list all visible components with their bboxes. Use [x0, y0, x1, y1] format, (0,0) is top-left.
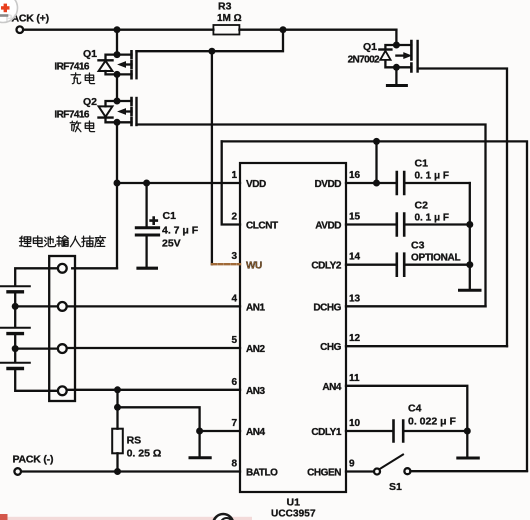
node: junction battery tap 2: [12, 345, 19, 352]
svg-text:AN2: AN2: [246, 344, 266, 355]
wire connector row1 to Q2 column: [72, 267, 117, 269]
watermark bottom-left red mark: [0, 514, 8, 520]
wire net VDD/CHGEN top line: [222, 141, 527, 470]
svg-text:AVDD: AVDD: [315, 221, 341, 232]
wire Q1 drain riser: [116, 30, 118, 55]
svg-text:C1: C1: [415, 158, 429, 170]
capacitor C2 0.1uF: [397, 214, 404, 236]
svg-text:14: 14: [349, 252, 361, 263]
capacitor C3 OPTIONAL: [397, 254, 404, 276]
wire AN2 pin5: [67, 347, 240, 349]
wire DVDD riser: [375, 141, 377, 183]
node: junction 2N7002 drain: [393, 42, 400, 49]
node: junction C4 / AN4-gnd bus: [464, 428, 471, 435]
wire AN4 pin11: [346, 386, 467, 431]
transistor Q1 2N7002: [379, 30, 417, 86]
terminal PACK(-): [14, 468, 21, 475]
wire Q2 source down to VDD node and connector: [116, 122, 118, 268]
node: junction VDD line / C1 4.7uF: [143, 180, 150, 187]
transistor Q1 IRF7416: [99, 51, 137, 78]
svg-text:10: 10: [349, 418, 361, 429]
resistor R3: [213, 25, 239, 35]
label C1 electrolytic plus: [149, 216, 158, 225]
label Q1 chinese: [71, 73, 81, 84]
wire CHG pin12: [346, 345, 507, 347]
svg-text:0. 25 Ω: 0. 25 Ω: [127, 448, 162, 460]
node: junction RS top / AN4 branch: [114, 404, 121, 411]
svg-text:VDD: VDD: [246, 179, 266, 190]
svg-text:AN3: AN3: [246, 386, 266, 397]
svg-text:OPTIONAL: OPTIONAL: [411, 253, 460, 264]
svg-text:0. 1 μ F: 0. 1 μ F: [415, 213, 449, 224]
wire Q1-Q2 link: [116, 74, 118, 101]
wire CHG riser to Q1 2N7002 gate: [418, 69, 507, 347]
svg-text:CHG: CHG: [320, 342, 342, 353]
wire PACK(+) top rail: [23, 29, 396, 31]
capacitor C4 0.022uF: [394, 421, 404, 442]
battery stack wires: [15, 268, 57, 391]
svg-text:UCC3957: UCC3957: [271, 509, 316, 520]
svg-text:4. 7 μ F: 4. 7 μ F: [162, 225, 199, 237]
wire DVDD pin16: [346, 182, 470, 184]
svg-text:CHGEN: CHGEN: [307, 468, 341, 479]
svg-text:PACK (-): PACK (-): [13, 454, 54, 466]
node: junction C2 / ground bus: [466, 221, 473, 228]
svg-text:0. 022 μ F: 0. 022 μ F: [408, 416, 456, 428]
node: junction DVDD pin16: [373, 180, 380, 187]
svg-text:7: 7: [231, 418, 237, 429]
svg-text:0. 1 μ F: 0. 1 μ F: [415, 171, 449, 182]
capacitor C1 0.1uF: [397, 172, 404, 194]
svg-text:RS: RS: [127, 435, 142, 447]
svg-text:5: 5: [231, 335, 237, 346]
svg-text:12: 12: [349, 333, 361, 344]
svg-text:WU: WU: [246, 260, 262, 271]
svg-text:25V: 25V: [162, 238, 181, 250]
battery cell B2: [1, 327, 30, 329]
svg-text:U1: U1: [287, 497, 301, 509]
node: junction C3 / ground bus: [466, 261, 473, 268]
node: junction Q2 bottom: [114, 119, 121, 126]
wire PACK(-) / BATLO pin8: [21, 470, 240, 472]
battery cell B1: [1, 285, 30, 287]
node: junction VDD line / Q column: [114, 180, 121, 187]
svg-text:2N7002: 2N7002: [348, 55, 380, 66]
wire RS top tap: [118, 390, 200, 431]
wire DCHG pin13: [346, 305, 486, 307]
svg-text:16: 16: [349, 170, 361, 181]
svg-text:DVDD: DVDD: [314, 179, 341, 190]
svg-text:C4: C4: [408, 403, 422, 415]
svg-text:1M Ω: 1M Ω: [217, 13, 242, 24]
svg-text:15: 15: [349, 212, 361, 223]
svg-text:IRF7416: IRF7416: [54, 110, 89, 121]
switch S1: [374, 469, 380, 475]
ground G3: [460, 289, 481, 292]
transistor Q2 IRF7416: [99, 98, 137, 125]
svg-text:CLCNT: CLCNT: [246, 221, 278, 232]
battery cell B3: [1, 362, 30, 364]
wire WU pin3 riser: [211, 51, 213, 264]
terminal PACK(+): [17, 26, 24, 33]
capacitor C1 4.7uF electrolytic: [136, 183, 158, 268]
wire C1-C3 ground bus: [469, 183, 471, 289]
svg-text:Q1: Q1: [83, 48, 97, 60]
svg-text:3: 3: [231, 251, 237, 262]
wire WU pin3 dashed stub: [212, 263, 240, 265]
svg-text:1: 1: [231, 170, 237, 181]
wire S1 to right rail: [410, 470, 527, 472]
svg-text:9: 9: [349, 459, 355, 470]
svg-text:CDLY2: CDLY2: [311, 261, 342, 272]
svg-text:2: 2: [231, 212, 237, 223]
svg-text:DCHG: DCHG: [313, 302, 341, 313]
node: junction 2N7002 source: [393, 64, 400, 71]
label Q2 chinese: [70, 121, 81, 132]
node: junction PACK- line / RS bottom: [114, 468, 121, 475]
node: junction Q1 source: [114, 71, 121, 78]
svg-text:11: 11: [349, 373, 360, 384]
node: junction PACK+ rail / Q1 drain: [114, 26, 121, 33]
node: junction Q2 top: [114, 98, 121, 105]
wire Q1 gate lead to node: [137, 30, 284, 52]
ground G4 below pin7: [198, 431, 200, 456]
svg-text:Q2: Q2: [83, 96, 97, 108]
svg-text:8: 8: [231, 459, 237, 470]
svg-text:R3: R3: [218, 1, 232, 13]
wire AVDD pin15: [346, 223, 470, 225]
wire CDLY1 pin10: [346, 430, 467, 432]
watermark bottom copyright circle: [213, 514, 233, 520]
watermark top-left logo: [0, 0, 18, 23]
node: junction DVDD net top: [373, 138, 380, 145]
svg-text:C1: C1: [163, 210, 177, 222]
svg-text:C3: C3: [411, 240, 425, 252]
IC U1 UCC3957 body: [240, 163, 346, 492]
wire AN3 pin6: [67, 389, 240, 391]
node: junction gate net / WU riser: [208, 48, 215, 55]
wire CDLY2 pin14: [346, 264, 470, 266]
svg-text:13: 13: [349, 293, 361, 304]
svg-text:CDLY1: CDLY1: [311, 427, 342, 438]
svg-text:C2: C2: [415, 200, 429, 212]
wire AN4 pin7: [200, 430, 240, 432]
label battery connector chinese: [19, 236, 31, 246]
node: junction AN4 / ground branch: [196, 428, 203, 435]
wire C4 ground drop: [466, 431, 468, 457]
connector pin circles: [58, 264, 67, 273]
ground G5: [458, 457, 479, 460]
svg-text:S1: S1: [389, 481, 402, 493]
svg-text:IRF7416: IRF7416: [54, 62, 89, 73]
svg-text:AN4: AN4: [246, 427, 266, 438]
watermark bottom pink strip: [0, 517, 252, 520]
wire CLCNT pin2 riser: [222, 141, 240, 224]
svg-text:AN1: AN1: [246, 302, 266, 313]
wire CHGEN pin9: [346, 470, 374, 472]
wire AN1 pin4: [67, 305, 240, 307]
node: junction battery tap 1: [12, 303, 19, 310]
wire Q2 gate to DCHG: [137, 125, 486, 307]
svg-text:4: 4: [231, 293, 237, 304]
connector socket rectangle: [49, 256, 75, 401]
svg-text:Q1: Q1: [363, 41, 377, 53]
resistor RS: [116, 407, 118, 471]
wire VDD pin1 line: [117, 182, 240, 184]
svg-text:AN4: AN4: [322, 382, 342, 393]
node: junction AN3 line / RS: [114, 386, 121, 393]
svg-text:6: 6: [231, 377, 237, 388]
svg-text:BATLO: BATLO: [246, 468, 278, 479]
node: junction Q1 drain: [114, 51, 121, 58]
node: junction R3 node / Q1 gate net: [280, 26, 287, 33]
